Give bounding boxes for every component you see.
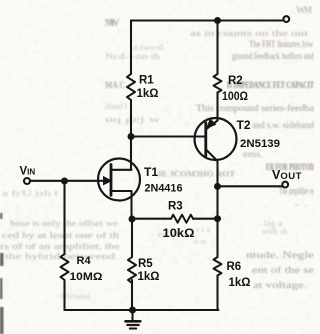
svg-text:VIN: VIN: [20, 166, 36, 178]
svg-text:as in counts on the out: as in counts on the out: [190, 28, 309, 38]
svg-text:ems.: ems.: [243, 149, 263, 159]
svg-text:10MΩ: 10MΩ: [70, 271, 103, 283]
svg-text:at voltage.: at voltage.: [253, 280, 307, 290]
svg-text:10kΩ: 10kΩ: [163, 228, 195, 240]
svg-text:WM: WM: [296, 5, 313, 15]
svg-text:ntude. Negle: ntude. Negle: [246, 250, 314, 260]
svg-text:R4: R4: [77, 255, 92, 267]
svg-text:a fcU ish t: a fcU ish t: [2, 189, 59, 198]
svg-text:uq gej w: uq gej w: [105, 114, 162, 124]
svg-text:3E 3COM3HO ROT: 3E 3COM3HO ROT: [157, 169, 235, 179]
svg-text:R1: R1: [139, 75, 154, 87]
svg-text:= -: = -: [294, 201, 307, 210]
svg-text:R2: R2: [228, 75, 243, 87]
svg-text:MW: MW: [105, 17, 120, 29]
svg-text:1kΩ: 1kΩ: [229, 277, 251, 289]
svg-text:ent of the se: ent of the se: [252, 265, 314, 275]
svg-text:MA C: MA C: [105, 80, 125, 90]
svg-text:T1: T1: [144, 165, 158, 179]
svg-text:1kΩ: 1kΩ: [137, 88, 159, 100]
svg-text:ilized l: ilized l: [105, 101, 128, 111]
svg-text:and s.w. sideband: and s.w. sideband: [252, 120, 314, 130]
svg-text:2N5139: 2N5139: [240, 138, 280, 150]
svg-text:ow: ow: [194, 237, 206, 246]
svg-text:ced by at least one of th: ced by at least one of th: [2, 230, 120, 240]
svg-text:ground feedback buffers and: ground feedback buffers and: [232, 51, 314, 61]
svg-text:The FBT features low: The FBT features low: [249, 39, 313, 49]
svg-text:100Ω: 100Ω: [222, 91, 248, 103]
svg-text:VOUT: VOUT: [272, 168, 302, 182]
svg-text:sta: sta: [196, 225, 210, 234]
svg-text:R3: R3: [168, 201, 183, 213]
svg-text:2N4416: 2N4416: [145, 183, 183, 195]
svg-text:rs of of an amplifier, the: rs of of an amplifier, the: [0, 241, 120, 251]
svg-text:This compound series-feedba: This compound series-feedba: [196, 103, 314, 113]
svg-text:R6: R6: [227, 261, 242, 273]
svg-text:T2: T2: [237, 118, 251, 132]
svg-text:1kΩ: 1kΩ: [138, 271, 160, 283]
svg-text:with th: with th: [262, 227, 287, 236]
svg-text:R5: R5: [138, 258, 153, 270]
svg-text:Ncd—on th: Ncd—on th: [105, 51, 161, 61]
